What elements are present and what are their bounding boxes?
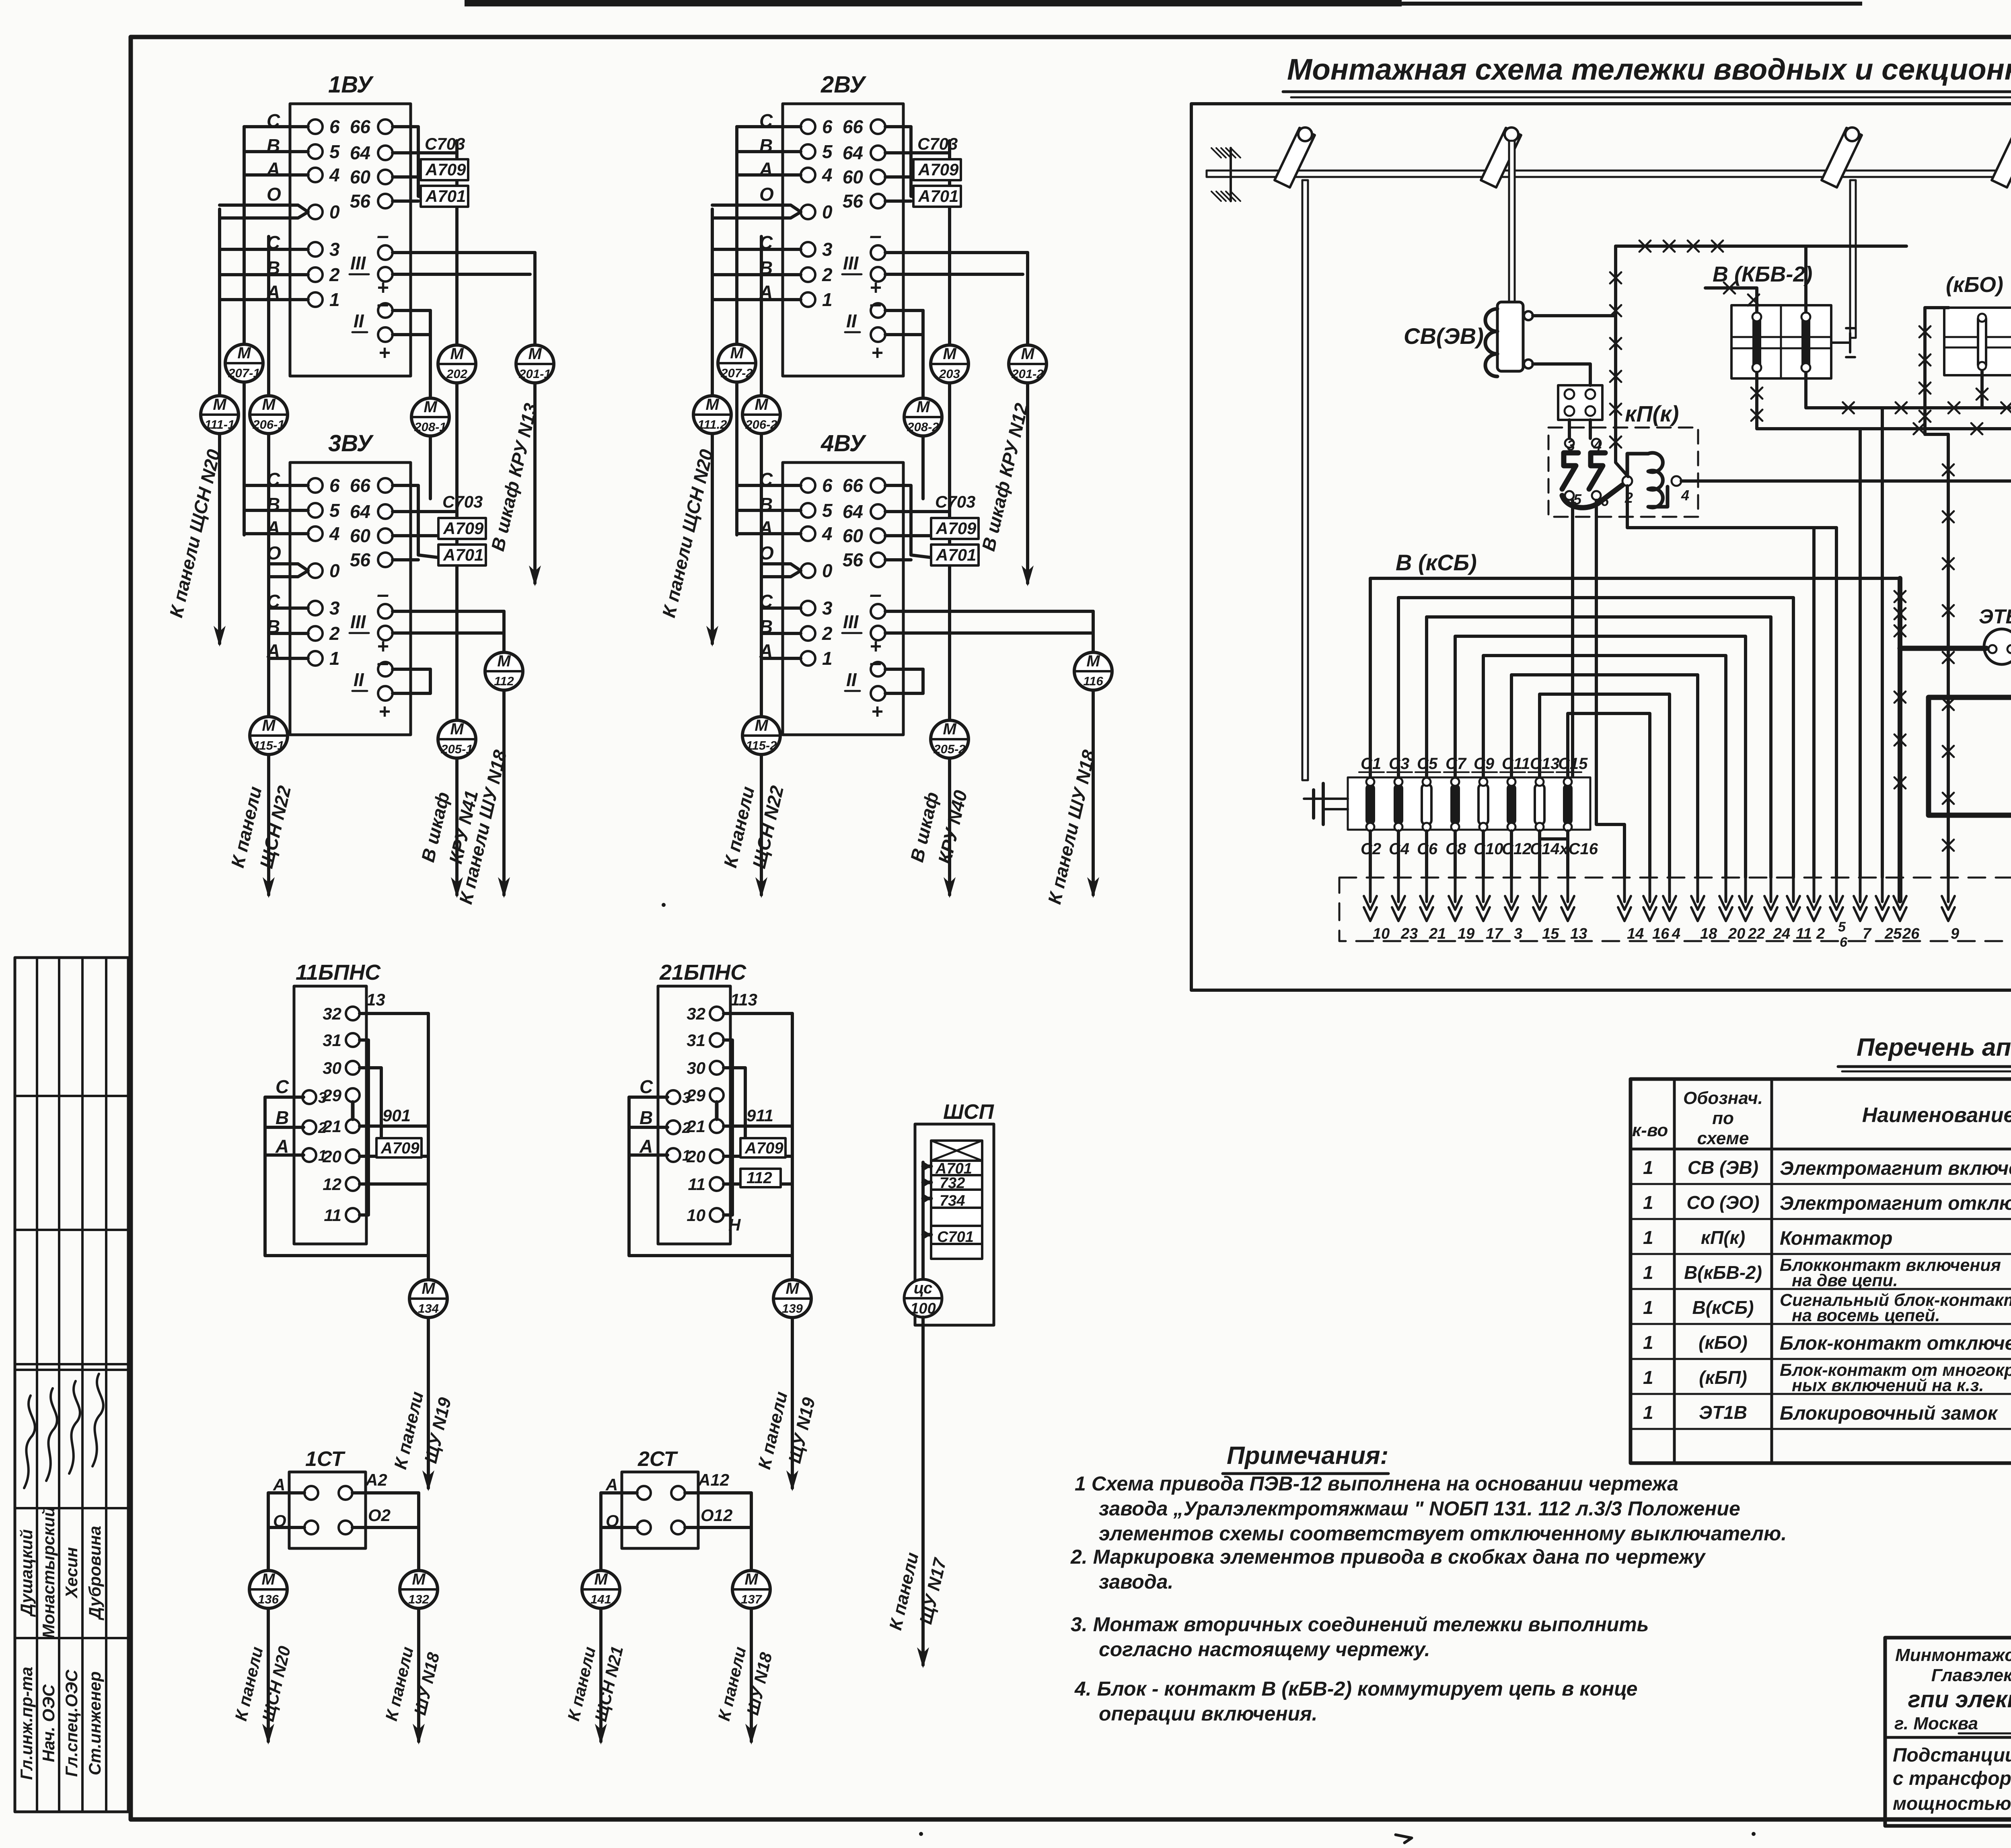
wire: lower circuit III bus <box>885 610 1093 613</box>
svg-text:М: М <box>497 652 511 670</box>
svg-text:М: М <box>785 1280 800 1297</box>
cable marker М116 <box>1074 652 1112 690</box>
svg-text:В (КБВ-2): В (КБВ-2) <box>1713 262 1812 286</box>
svg-text:911: 911 <box>746 1106 773 1125</box>
svg-text:согласно настоящему чертежу.: согласно настоящему чертежу. <box>1099 1638 1430 1661</box>
strip divider <box>15 1637 128 1639</box>
wire В(КБВ-2) bottom right <box>1806 372 2011 434</box>
svg-text:5: 5 <box>822 141 833 162</box>
svg-text:205-2: 205-2 <box>933 742 965 756</box>
svg-text:113: 113 <box>730 990 757 1009</box>
svg-text:ных включений на к.з.: ных включений на к.з. <box>1792 1376 1984 1395</box>
wire to panel <box>791 1318 794 1488</box>
contact С7/С8 <box>1450 778 1460 831</box>
svg-text:М: М <box>261 1570 276 1588</box>
wire left <box>601 1493 637 1570</box>
svg-text:М: М <box>744 1570 759 1588</box>
svg-text:М: М <box>1021 345 1035 363</box>
svg-text:10: 10 <box>1373 925 1390 942</box>
svg-text:14: 14 <box>1627 925 1644 942</box>
cable marker М207-2 <box>718 344 756 382</box>
svg-text:5: 5 <box>822 500 833 521</box>
svg-text:С701: С701 <box>937 1229 974 1246</box>
svg-text:на две цепи.: на две цепи. <box>1792 1271 1898 1290</box>
РК contact arrow 13 <box>1567 876 1569 902</box>
svg-text:734: 734 <box>940 1192 965 1209</box>
wire rows 3,2,1 upper block <box>220 248 308 251</box>
terminal block 21БПНС <box>658 986 730 1244</box>
wire stubs 66,64,60,56 lower <box>885 485 950 560</box>
wire <box>244 509 308 512</box>
cable marker М207-1 <box>225 344 263 382</box>
wire signal loop С13 <box>1540 694 1670 878</box>
svg-text:элементов схемы соответствует: элементов схемы соответствует отключенно… <box>1099 1522 1787 1545</box>
wire: jumper 30-20 <box>724 1068 745 1150</box>
closing electromagnet СВ(ЭВ) <box>1485 302 1533 376</box>
РК contact arrow 18 <box>1696 876 1699 902</box>
svg-text:–: – <box>377 582 389 606</box>
signatures (rotated) <box>24 1396 35 1488</box>
wire signal loop С9 <box>1483 656 1726 878</box>
contactor internals <box>1562 437 1689 509</box>
svg-text:66: 66 <box>350 116 371 137</box>
svg-text:0: 0 <box>822 560 833 581</box>
svg-text:21: 21 <box>1429 925 1446 942</box>
svg-text:С703: С703 <box>442 492 483 511</box>
svg-text:А2: А2 <box>365 1470 387 1489</box>
wire: right bus D <box>948 141 951 346</box>
wire: bus E circuit III <box>885 251 1028 254</box>
svg-text:(кБО): (кБО) <box>1698 1332 1748 1353</box>
svg-text:206-2: 206-2 <box>745 417 777 432</box>
wire stub <box>923 1165 931 1168</box>
РК contact arrow 19 <box>1454 876 1457 902</box>
terminal block 3ВУ <box>290 463 411 735</box>
svg-text:22: 22 <box>1748 925 1765 942</box>
svg-text:–: – <box>870 224 882 248</box>
svg-text:0: 0 <box>329 560 340 581</box>
wire stubs 66,64,60,56 upper <box>885 127 950 201</box>
cable marker М202 <box>438 345 476 383</box>
svg-text:2: 2 <box>329 623 340 644</box>
svg-text:О2: О2 <box>368 1506 391 1525</box>
push rod from crank2 <box>1509 141 1515 302</box>
wire: jumper 29-21 <box>715 1102 719 1119</box>
РК contact arrow 25 <box>1881 876 1884 902</box>
svg-text:7: 7 <box>1863 925 1872 942</box>
plug contact row РК base <box>1348 777 1590 830</box>
svg-text:С9: С9 <box>1474 755 1495 773</box>
svg-text:134: 134 <box>418 1301 439 1316</box>
wire: left bus A <box>243 127 246 343</box>
svg-text:М: М <box>705 396 720 413</box>
svg-text:мощностью от 25 до 63МВа: мощностью от 25 до 63МВа <box>1893 1793 2011 1814</box>
wire to panel <box>599 1608 602 1741</box>
wire <box>244 125 308 128</box>
cable marker М141 <box>582 1570 620 1608</box>
strip divider <box>15 1507 128 1509</box>
wire: ШСП bus <box>921 1162 925 1279</box>
contact С1/С2 <box>1365 778 1375 831</box>
wire КП contact 6 down to РК 14 <box>1596 500 1624 878</box>
wire tag А709 <box>421 159 468 180</box>
svg-text:1: 1 <box>1643 1402 1653 1423</box>
svg-text:Гл.инж.пр-та: Гл.инж.пр-та <box>17 1667 36 1780</box>
svg-text:2: 2 <box>329 264 340 285</box>
svg-text:О: О <box>759 184 774 205</box>
svg-text:137: 137 <box>741 1592 762 1606</box>
svg-text:1: 1 <box>1643 1262 1653 1283</box>
svg-text:М: М <box>730 344 744 362</box>
РК contact arrow 10 <box>1369 876 1372 902</box>
svg-text:25: 25 <box>1884 925 1902 942</box>
svg-text:9: 9 <box>1951 925 1959 942</box>
signature strip frame <box>15 958 128 1812</box>
wire <box>244 484 308 487</box>
svg-text:В(кСБ): В(кСБ) <box>1692 1297 1754 1318</box>
wire to РК 5-6 <box>1835 528 1838 878</box>
svg-text:Нач. ОЭС: Нач. ОЭС <box>39 1684 58 1762</box>
svg-text:А701: А701 <box>425 187 466 206</box>
svg-text:30: 30 <box>687 1059 705 1077</box>
wire to РК 25 <box>1881 408 1884 878</box>
svg-text:М: М <box>450 345 464 363</box>
wire signal loop С5 <box>1427 617 1771 878</box>
svg-text:6: 6 <box>329 475 340 496</box>
cable marker М111.2 <box>693 396 731 434</box>
cable marker М201-1 <box>516 345 554 383</box>
wire thick ЭТВ path <box>1900 646 1986 651</box>
wire: lower circuit III bus <box>393 610 504 613</box>
wire tag А709 lower <box>438 518 486 539</box>
svg-text:по: по <box>1712 1108 1734 1128</box>
svg-text:2СТ: 2СТ <box>637 1447 678 1471</box>
svg-text:17: 17 <box>1486 925 1503 942</box>
svg-text:М: М <box>528 345 542 363</box>
svg-text:136: 136 <box>258 1592 279 1606</box>
svg-text:Хесин: Хесин <box>62 1547 81 1599</box>
svg-text:С703: С703 <box>425 134 465 153</box>
wire: left bracket <box>265 1097 428 1279</box>
svg-text:4. Блок - контакт В (кБВ-2): 4. Блок - контакт В (кБВ-2) коммутирует … <box>1074 1677 1638 1700</box>
svg-text:1: 1 <box>822 648 833 669</box>
РК dashed enclosure <box>1339 878 2011 941</box>
svg-text:56: 56 <box>843 191 864 212</box>
svg-text:С1: С1 <box>1361 755 1381 773</box>
cable marker М111-1 <box>201 396 239 434</box>
svg-text:г. Москва: г. Москва <box>1894 1714 1978 1733</box>
svg-text:21БПНС: 21БПНС <box>659 960 746 985</box>
РК contact arrow 7 <box>1859 876 1862 902</box>
wire <box>244 532 308 535</box>
svg-text:Гл.спец.ОЭС: Гл.спец.ОЭС <box>62 1669 81 1777</box>
wire: left bus C <box>267 236 270 396</box>
wire stub <box>923 1181 931 1184</box>
svg-text:1ВУ: 1ВУ <box>328 72 374 98</box>
svg-text:2: 2 <box>822 264 833 285</box>
svg-text:31: 31 <box>687 1031 705 1050</box>
svg-text:М: М <box>943 720 957 738</box>
strip divider <box>15 1363 128 1365</box>
svg-text:13: 13 <box>366 990 385 1009</box>
svg-text:схеме: схеме <box>1697 1129 1749 1148</box>
svg-text:206-1: 206-1 <box>252 417 284 432</box>
svg-text:60: 60 <box>843 167 864 187</box>
svg-text:ЭТВ: ЭТВ <box>1979 605 2011 628</box>
svg-text:А12: А12 <box>698 1470 729 1489</box>
wire tag А701 <box>913 186 961 207</box>
title block frame <box>1885 1638 2011 1826</box>
svg-text:+: + <box>871 700 883 723</box>
svg-text:С: С <box>276 1076 289 1097</box>
svg-text:М: М <box>755 396 769 413</box>
svg-text:23: 23 <box>1400 925 1418 942</box>
terminal block ШСП <box>915 1124 994 1325</box>
svg-text:А701: А701 <box>918 187 958 206</box>
strip divider <box>15 1369 128 1371</box>
svg-text:0: 0 <box>329 201 340 222</box>
contactor КП(К) enclosure <box>1548 428 1698 517</box>
svg-text:А: А <box>605 1475 618 1494</box>
svg-text:31: 31 <box>323 1031 341 1050</box>
svg-text:1: 1 <box>682 1147 691 1164</box>
wire <box>244 150 308 153</box>
svg-text:5: 5 <box>1573 491 1582 508</box>
wire <box>244 173 308 177</box>
drive shaft <box>1207 170 2011 172</box>
wire tag А701 lower <box>438 545 486 565</box>
svg-text:М: М <box>213 396 227 413</box>
РК contact arrow 2 <box>1813 876 1816 902</box>
contact С9/С10 <box>1478 778 1488 831</box>
svg-text:1: 1 <box>1643 1297 1653 1318</box>
svg-text:А709: А709 <box>918 160 959 179</box>
svg-text:С703: С703 <box>917 134 958 153</box>
svg-text:207-1: 207-1 <box>228 366 260 380</box>
svg-text:20: 20 <box>1728 925 1745 942</box>
svg-text:С3: С3 <box>1389 755 1409 773</box>
svg-text:3: 3 <box>1514 925 1522 942</box>
РК contact arrow 9 <box>1947 876 1950 902</box>
wire right <box>352 1493 419 1570</box>
svg-text:В (кСБ): В (кСБ) <box>1396 550 1477 575</box>
wire: bus F circuit II <box>393 309 430 312</box>
svg-text:М: М <box>916 398 930 416</box>
interlock lock ЭТВ <box>1984 629 2011 664</box>
svg-text:А701: А701 <box>443 545 483 564</box>
wire: lower circuit II stubs <box>885 668 923 671</box>
wire tag А709 lower <box>931 518 979 539</box>
svg-text:60: 60 <box>350 167 371 187</box>
wire: jumper 30-20 <box>360 1068 381 1150</box>
cable marker М115-2 <box>742 717 780 754</box>
wire rows 3,2,1 lower block <box>761 606 801 610</box>
РК contact arrow 22 <box>1744 876 1747 902</box>
svg-text:56: 56 <box>350 191 371 212</box>
wire signal loop С15 <box>1568 713 1650 878</box>
cable marker М208-2 <box>904 398 942 436</box>
svg-text:В: В <box>276 1107 289 1128</box>
wire to panel <box>427 1318 430 1488</box>
svg-text:Наименование: Наименование <box>1862 1104 2011 1127</box>
svg-text:30: 30 <box>323 1059 341 1077</box>
РК contact arrow 21 <box>1425 876 1428 902</box>
svg-text:60: 60 <box>843 525 864 546</box>
svg-text:2: 2 <box>318 1120 327 1137</box>
svg-text:2: 2 <box>1816 925 1825 942</box>
svg-text:+: + <box>871 341 883 364</box>
svg-text:СВ(ЭВ): СВ(ЭВ) <box>1404 323 1484 349</box>
wire: bus E circuit III <box>393 251 535 254</box>
svg-text:4: 4 <box>1672 925 1680 942</box>
wall anchor left <box>1230 148 1232 201</box>
svg-text:С15: С15 <box>1558 755 1588 773</box>
cable marker М134 <box>409 1280 447 1318</box>
svg-text:116: 116 <box>1083 674 1103 688</box>
svg-text:М: М <box>1086 652 1100 670</box>
svg-text:64: 64 <box>843 142 863 163</box>
terminal strip under СВ <box>1558 385 1602 420</box>
svg-text:+: + <box>378 341 390 364</box>
wire to РК 7 <box>1859 429 1862 878</box>
cable marker М203 <box>931 345 968 383</box>
svg-text:2. Маркировка элементов при: 2. Маркировка элементов привода в скобка… <box>1070 1546 1706 1568</box>
svg-text:3: 3 <box>822 598 833 619</box>
wire (КБО) left down <box>1925 308 1949 434</box>
svg-text:1СТ: 1СТ <box>305 1447 345 1471</box>
mechanism drawing frame <box>1191 104 2011 990</box>
svg-text:115-2: 115-2 <box>746 738 777 752</box>
svg-text:111-1: 111-1 <box>205 417 235 432</box>
wire rows 3,2,1 upper block <box>712 248 801 251</box>
svg-text:Блок-контакт отключения: Блок-контакт отключения <box>1780 1333 2011 1354</box>
wire stubs 66,64,60,56 lower <box>393 485 457 560</box>
wire (КБО) bottom <box>1980 371 1984 408</box>
bell crank lever at x=4595 <box>1822 127 1862 187</box>
cable marker М115-1 <box>250 717 288 754</box>
cable marker М206-2 <box>742 396 780 434</box>
svg-text:А709: А709 <box>425 160 466 179</box>
РК contact arrow 5 <box>1835 876 1838 902</box>
svg-text:+: + <box>378 700 390 723</box>
wire x-marked bus to 9 <box>1947 434 1950 878</box>
svg-text:М: М <box>262 396 276 413</box>
svg-text:М: М <box>943 345 957 363</box>
svg-text:2: 2 <box>822 623 833 644</box>
svg-text:26: 26 <box>1902 925 1920 942</box>
wire В(КБВ-2) feeds <box>1705 288 1757 312</box>
wire: jumper 29-21 <box>351 1102 355 1119</box>
wire: lower circuit II stubs <box>393 668 430 671</box>
svg-text:СО (ЭО): СО (ЭО) <box>1686 1192 1759 1213</box>
svg-text:3: 3 <box>682 1089 691 1106</box>
svg-text:4: 4 <box>329 164 340 185</box>
svg-text:5: 5 <box>329 500 340 521</box>
svg-text:А709: А709 <box>380 1139 419 1157</box>
plug fork symbol <box>1322 783 1325 824</box>
svg-text:66: 66 <box>843 116 864 137</box>
svg-text:11: 11 <box>688 1175 705 1194</box>
svg-text:901: 901 <box>382 1106 411 1125</box>
svg-text:1: 1 <box>1643 1157 1653 1178</box>
svg-text:II: II <box>846 669 857 690</box>
svg-text:4ВУ: 4ВУ <box>820 430 866 456</box>
svg-text:–: – <box>870 582 882 606</box>
svg-text:202: 202 <box>446 367 467 381</box>
РК contact arrow 3 <box>1510 876 1513 902</box>
svg-text:64: 64 <box>350 142 370 163</box>
svg-text:11БПНС: 11БПНС <box>296 960 381 985</box>
wire tag А701 lower <box>931 545 979 565</box>
wire tag А701 <box>421 186 468 207</box>
svg-text:Перечень аппаратуры: Перечень аппаратуры <box>1857 1034 2011 1061</box>
cable marker М201-2 <box>1009 345 1047 383</box>
РК contact arrow 26 <box>1899 876 1902 902</box>
svg-text:3ВУ: 3ВУ <box>328 430 374 456</box>
svg-text:3. Монтаж вторичных соедине: 3. Монтаж вторичных соединений тележки в… <box>1071 1613 1649 1636</box>
wire: left bracket <box>629 1097 792 1279</box>
svg-text:4: 4 <box>1593 437 1602 454</box>
svg-text:III: III <box>350 611 366 632</box>
svg-text:6: 6 <box>1840 935 1848 950</box>
cable marker цс 100 <box>904 1279 942 1317</box>
svg-text:3: 3 <box>822 239 833 260</box>
push rod from crank2b <box>1850 180 1856 338</box>
svg-text:М: М <box>594 1570 608 1588</box>
svg-text:завода.: завода. <box>1099 1570 1173 1593</box>
svg-text:5: 5 <box>1838 919 1846 935</box>
svg-text:10: 10 <box>687 1206 705 1225</box>
svg-text:С13: С13 <box>1530 755 1559 773</box>
node: fork to terminal 0 <box>220 205 308 212</box>
РК contact arrow 23 <box>1397 876 1400 902</box>
svg-text:66: 66 <box>843 475 864 496</box>
svg-text:3: 3 <box>329 239 340 260</box>
wire signal loop С11 <box>1511 675 1698 878</box>
svg-text:В(кБВ-2): В(кБВ-2) <box>1684 1262 1762 1283</box>
svg-text:Дубровина: Дубровина <box>85 1526 104 1620</box>
svg-text:–: – <box>870 292 882 316</box>
svg-text:208-1: 208-1 <box>414 420 446 434</box>
cable marker М136 <box>249 1570 287 1608</box>
svg-text:1: 1 <box>318 1147 327 1164</box>
svg-text:1: 1 <box>1643 1367 1653 1388</box>
svg-text:Монтажная схема тележки вво: Монтажная схема тележки вводных и секцио… <box>1287 53 2011 86</box>
svg-text:32: 32 <box>687 1004 705 1023</box>
svg-text:М: М <box>450 720 464 738</box>
svg-text:6: 6 <box>822 475 833 496</box>
svg-text:112: 112 <box>746 1169 772 1187</box>
terminal block 1ВУ <box>290 104 411 376</box>
svg-text:19: 19 <box>1458 925 1474 942</box>
svg-text:II: II <box>354 669 364 690</box>
svg-text:5: 5 <box>329 141 340 162</box>
svg-text:Блокировочный замок: Блокировочный замок <box>1780 1403 1999 1424</box>
scan artifact: black band top <box>465 0 1402 6</box>
wires contacts down to РК arrows <box>1369 831 1372 878</box>
scan artifact: bottom center arrow mark <box>1396 1835 1412 1843</box>
svg-text:1 Схема привода ПЭВ-12 вып: 1 Схема привода ПЭВ-12 выполнена на осно… <box>1075 1472 1678 1495</box>
svg-text:141: 141 <box>590 1592 611 1606</box>
wire tag А709 <box>913 159 961 180</box>
svg-text:М: М <box>412 1570 426 1588</box>
svg-text:С703: С703 <box>935 492 975 511</box>
svg-text:III: III <box>843 611 859 632</box>
svg-text:кП(к): кП(к) <box>1625 401 1679 426</box>
svg-text:Примечания:: Примечания: <box>1227 1442 1388 1470</box>
contact С15/С16 <box>1563 778 1573 831</box>
svg-text:4: 4 <box>822 164 833 185</box>
